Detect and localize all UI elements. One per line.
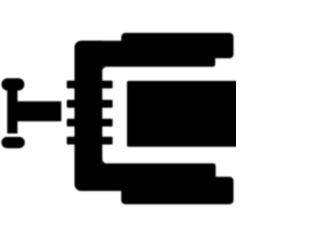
upper jaw pad bar	[121, 33, 233, 58]
screw rod	[17, 101, 62, 121]
screw thread tooth left 4	[67, 137, 76, 145]
handle bottom knob	[1, 137, 24, 148]
clamp frame top arm	[75, 41, 216, 67]
screw thread tooth right 3	[102, 119, 113, 127]
handle top knob	[2, 78, 25, 90]
screw thread tooth right 4	[102, 137, 113, 145]
clamp frame spine (vertical bar)	[75, 41, 103, 191]
clamped plate (workpiece)	[127, 81, 239, 147]
lower jaw pad bar	[121, 177, 233, 204]
screw thread tooth right 2	[102, 100, 113, 108]
top arm inner fillet	[102, 67, 107, 72]
screw thread tooth right 1	[102, 81, 113, 89]
clamp frame bottom arm	[75, 163, 216, 191]
screw thread tooth left 1	[67, 81, 76, 89]
bottom arm inner fillet	[102, 159, 107, 164]
handle shaft	[7, 85, 17, 134]
screw thread tooth left 3	[67, 119, 76, 127]
screw thread tooth left 2	[67, 100, 76, 108]
